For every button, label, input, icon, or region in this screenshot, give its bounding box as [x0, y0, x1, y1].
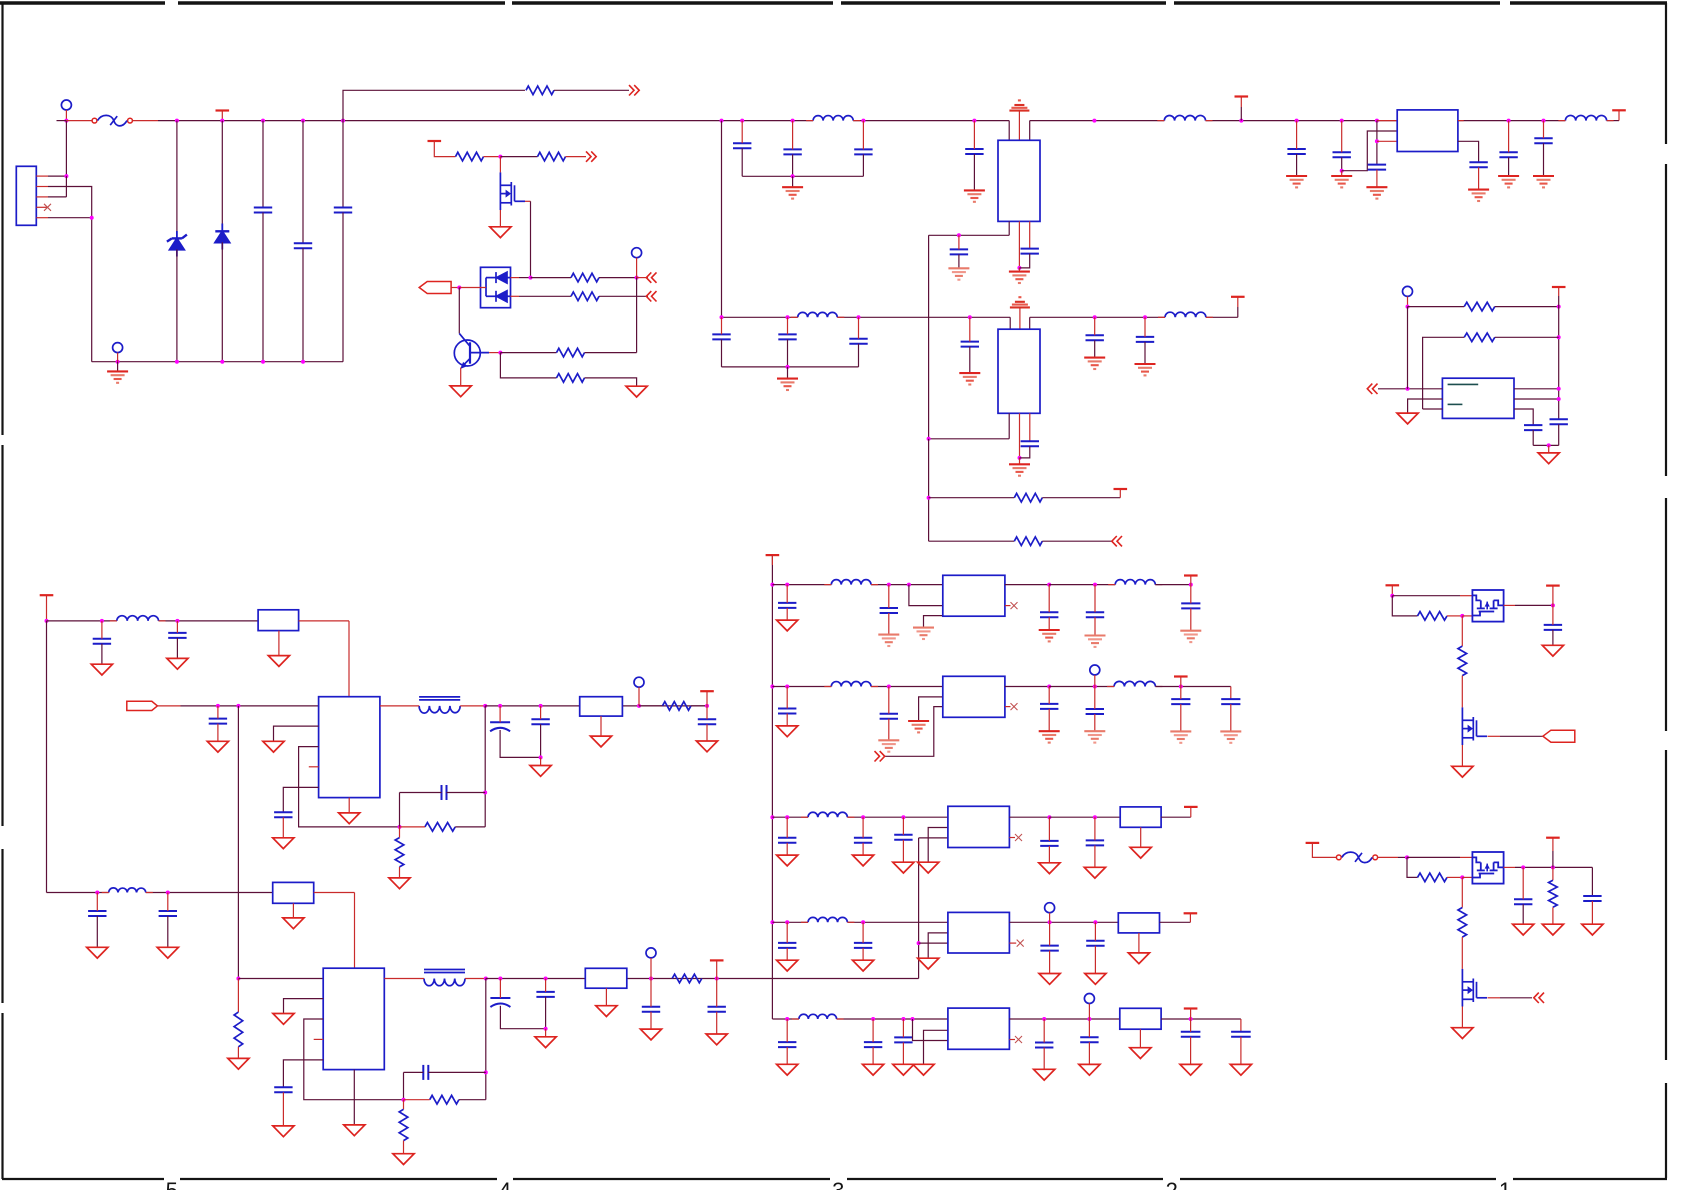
junction R10/T	[1557, 305, 1561, 309]
capacitor C6	[854, 149, 872, 154]
wire C60 down	[872, 1047, 874, 1064]
earth ground C20	[1468, 189, 1489, 191]
connector J1 pin 3	[36, 196, 48, 198]
inductor L4	[1164, 115, 1205, 120]
wire gnd rail to earth	[117, 362, 119, 372]
junction out1 fb col	[483, 704, 487, 708]
junction out1/P5	[637, 704, 641, 708]
wire fb vertical	[636, 278, 638, 353]
earth ground C13	[959, 372, 980, 374]
junction cap rail	[1547, 443, 1551, 447]
ground U5 pin2	[263, 741, 284, 752]
junction out2/P6	[649, 977, 653, 981]
stub U7 nc	[1005, 605, 1011, 607]
wire gnd stub out2	[545, 1029, 547, 1037]
wire FB4 gnd stub	[605, 988, 607, 1006]
capacitor C15	[1086, 335, 1104, 340]
port P5	[634, 677, 644, 687]
wire U3 in	[1377, 120, 1397, 122]
wire fb corner	[399, 793, 401, 827]
wire D3 top to R4	[531, 277, 572, 279]
wire sw1 out	[1504, 604, 1515, 606]
wire U5 pin5 route	[283, 787, 318, 812]
junction bus2/C11	[786, 315, 790, 319]
junction bus/C2	[301, 119, 305, 123]
wire U3 pin3	[1377, 140, 1397, 142]
junction gnd rail/C2	[301, 360, 305, 364]
capacitor C64	[1181, 1032, 1201, 1037]
junction feed row1	[770, 583, 774, 587]
fuse F1	[92, 118, 97, 123]
junction row2/C44	[785, 685, 789, 689]
connector J1 pin 5	[36, 217, 48, 219]
earth ground pi filter	[782, 186, 803, 188]
earth ground C48	[1170, 730, 1191, 732]
wire R20 to Q4	[1461, 676, 1463, 708]
capacitor C23	[1524, 425, 1542, 430]
capacitor C63	[1080, 1037, 1098, 1042]
wire right col	[1558, 307, 1560, 420]
filter block FB3	[273, 882, 314, 903]
wire D3 row1 out	[511, 277, 520, 279]
connector J1 body	[16, 166, 36, 225]
wire fuse to bus	[132, 120, 158, 122]
wire C48 down	[1180, 704, 1182, 731]
svg-text:3: 3	[832, 1178, 844, 1190]
wire U1 gnd pin	[1018, 221, 1020, 268]
connector J1 pin 4	[36, 206, 48, 208]
wire U2 gnd stem	[1019, 458, 1021, 464]
wire row4 T stem	[1189, 913, 1191, 922]
wire flag2 to reg2	[1019, 307, 1021, 329]
junction bus/drop to 2nd stage	[720, 119, 724, 123]
wire C14 to gnd node	[1020, 446, 1030, 458]
junction EN2	[236, 977, 240, 981]
wire C18 gnd stem	[1341, 171, 1343, 176]
junction p3 row4	[917, 941, 921, 945]
bus segment after reg1 tap	[1030, 120, 1165, 122]
wire sw1 gate down	[1461, 616, 1463, 646]
capacitor C31	[698, 719, 716, 724]
wire bus to D2	[221, 121, 223, 227]
junction row2/C45	[887, 685, 891, 689]
wire row2 to end	[1155, 686, 1230, 688]
wire C28 down	[282, 817, 284, 838]
capacitor C54	[1086, 840, 1104, 845]
junction row4/P8	[1048, 920, 1052, 924]
wire U4 pin3	[1423, 408, 1443, 410]
junction bus/C21	[1507, 119, 1511, 123]
LDO row3 rail	[772, 816, 808, 818]
wire R13 gnd	[399, 867, 401, 878]
capacitor C60	[864, 1042, 882, 1047]
power symbol T aux	[428, 140, 442, 142]
capacitor C52	[894, 835, 912, 840]
ground out2	[535, 1037, 556, 1048]
power symbol T supervisor	[1552, 286, 1566, 288]
wire U4 out3	[1514, 409, 1533, 425]
wire Rdn1 stub	[399, 827, 401, 838]
wire F2 out	[1378, 856, 1398, 858]
junction J1 pin5 / gnd column	[90, 216, 94, 220]
wire sw2 out	[1504, 866, 1515, 868]
junction row5 p3	[911, 1017, 915, 1021]
wire row3 T stem	[1190, 807, 1192, 817]
wire C8 gnd	[958, 254, 960, 268]
wire J1 pin5	[48, 217, 92, 219]
capacitor C3	[334, 208, 352, 213]
wire Q6 source	[1461, 1007, 1463, 1028]
inductor L8	[109, 888, 146, 893]
ground FB6	[1128, 953, 1149, 964]
wire Q1 drain	[525, 200, 531, 202]
regulator U1	[998, 140, 1040, 221]
wire T to R2	[434, 141, 455, 157]
wire L9 to out	[465, 978, 486, 980]
wire C16 down	[1144, 342, 1146, 364]
wire row3 end	[1161, 816, 1191, 818]
filter block FB7	[1120, 1008, 1161, 1029]
junction feed row2	[770, 685, 774, 689]
wire U4 out2	[1514, 398, 1559, 400]
wire C52 down	[902, 840, 904, 862]
wire R23 to Q6	[1461, 937, 1463, 969]
inductor L13	[1114, 681, 1155, 686]
junction row1/C42	[1093, 583, 1097, 587]
junction bus2/C15	[1093, 315, 1097, 319]
inductor L12	[831, 682, 871, 687]
wire C2 to gnd rail	[302, 248, 304, 362]
resistor R3	[538, 152, 566, 161]
wire FB5 gnd	[1140, 827, 1142, 847]
inductor L6	[117, 616, 159, 621]
capacitor C40	[880, 608, 898, 613]
wire bus end up	[1618, 110, 1620, 120]
wire feed to dcdc2	[237, 706, 239, 979]
capacitor C14	[1021, 441, 1039, 446]
ground U4 pin2	[1397, 413, 1418, 424]
wire R11 left route	[1423, 337, 1465, 409]
wire U1 left col down	[928, 235, 930, 438]
wire U2 pin3	[1029, 413, 1031, 441]
junction sw1 gate	[1460, 614, 1464, 618]
wire T stem out2	[716, 960, 718, 978]
dcdc1 input rail	[47, 620, 117, 622]
wire C33 down	[167, 916, 169, 947]
resistor R23	[1458, 908, 1467, 938]
wire C30 down	[540, 724, 542, 757]
wire R12 right	[455, 826, 485, 828]
wire drop to bus2	[721, 121, 723, 318]
ground R17	[393, 1154, 414, 1165]
resistor R12	[425, 823, 455, 832]
supervisor U4 label lines	[1448, 384, 1479, 404]
stub U10 nc	[1009, 942, 1016, 944]
junction row1/C41	[1047, 583, 1051, 587]
wire D3 row2 out	[511, 295, 520, 297]
capacitor C38	[708, 1007, 726, 1012]
wire to sw2 node	[1398, 856, 1407, 858]
offpage connector aux >>	[586, 151, 596, 161]
wire row1 to corner	[1155, 584, 1191, 586]
wire to R3	[500, 156, 537, 158]
junction bus segment	[1092, 119, 1096, 123]
LDO U8	[943, 676, 1005, 717]
wire reg1 right top	[1029, 121, 1031, 141]
junction row1 p2	[907, 583, 911, 587]
frame top border	[0, 1, 165, 4]
junction bus/C3	[341, 119, 345, 123]
wire C4 down	[741, 148, 743, 176]
resistor R2	[456, 152, 484, 161]
no-connect U11	[1015, 1036, 1022, 1043]
offpage connector << U4	[1367, 384, 1377, 394]
wire D2 anode to gnd rail	[221, 242, 223, 361]
capacitor C21	[1499, 152, 1517, 157]
no-connect U10	[1017, 940, 1024, 947]
wire C61 down	[902, 1042, 904, 1064]
wire R17 gnd	[403, 1141, 405, 1154]
wire P3 stem	[636, 258, 638, 278]
port P9	[1084, 994, 1094, 1004]
earth ground C8	[948, 267, 969, 269]
inductor L3	[1165, 312, 1206, 317]
wire sw1 gate row	[1392, 596, 1417, 616]
junction sw2 feed	[1405, 855, 1409, 859]
wire LDO2 p2	[919, 697, 943, 721]
feedback cap Cff1	[442, 785, 447, 800]
power symbol T sw1	[1386, 584, 1400, 586]
wire Q1 source stub	[499, 210, 501, 227]
wire C34 down	[282, 1092, 284, 1126]
resistor R21	[1418, 873, 1448, 882]
power symbol T mid	[1235, 95, 1249, 97]
feed column red stub	[771, 555, 773, 565]
ground FB2	[590, 736, 611, 747]
wire U1 out rail	[929, 234, 1010, 236]
wire gnd stub out1	[540, 757, 542, 765]
wire R22 down	[1552, 907, 1554, 924]
wire LDO4 p2	[928, 933, 948, 958]
capacitor C25	[93, 639, 111, 644]
MOSFET Q6	[1462, 969, 1487, 1007]
junction row3/C51	[861, 815, 865, 819]
wire R11 right	[1495, 336, 1559, 338]
wire C10 down	[721, 339, 723, 367]
junction feed row4	[770, 920, 774, 924]
ground C59	[777, 1064, 798, 1075]
ground R7	[626, 386, 647, 397]
wire C58 down	[1094, 946, 1096, 974]
wire C7 down	[973, 154, 975, 190]
wire bus up branch	[343, 90, 525, 120]
junction U2 out/col	[927, 437, 931, 441]
wire U5 fb route	[299, 747, 400, 827]
ground C57	[1039, 974, 1060, 985]
filter block FB5	[1120, 807, 1161, 827]
ground C31	[696, 741, 717, 752]
capacitor C18	[1333, 152, 1351, 157]
wire Cff1 left	[400, 792, 442, 794]
wire C40 down	[888, 613, 890, 635]
wire C23 down	[1532, 430, 1534, 445]
power symbol T sw1 out	[1546, 584, 1560, 586]
wire Q6 drain to offpage	[1488, 997, 1501, 999]
junction pi2 gnd	[786, 365, 790, 369]
earth ground C17	[1286, 175, 1307, 177]
wire R4 to node	[599, 277, 637, 279]
wire rowB to R9	[929, 540, 1015, 542]
ground LDO5 p2	[913, 1064, 934, 1075]
wire T4 stem lower	[1240, 107, 1242, 121]
wire T stem out1	[706, 691, 708, 706]
wire C59 down	[786, 1047, 788, 1064]
wire C62 down	[1043, 1048, 1045, 1070]
junction P4 node	[1406, 305, 1410, 309]
stub U5 pin4	[309, 766, 319, 768]
wire C11 down	[787, 339, 789, 367]
junction bus/C17	[1295, 119, 1299, 123]
junction C29/C30 gnd	[539, 755, 543, 759]
wire C65 down	[1240, 1037, 1242, 1065]
ground Q4	[1452, 766, 1473, 777]
power symbol T LDO feed	[766, 554, 780, 556]
resistor R18	[672, 974, 702, 983]
wire pi gnd rail	[742, 175, 863, 177]
junction row1/C40	[887, 583, 891, 587]
wire FB3 out	[314, 892, 355, 894]
inductor L9 (shielded)	[424, 979, 465, 986]
junction row1 end	[1189, 583, 1193, 587]
capacitor C65	[1231, 1032, 1251, 1037]
power symbol T row3	[1184, 806, 1198, 808]
ground out1	[530, 766, 551, 777]
junction row4/C56	[861, 920, 865, 924]
ground C28	[273, 838, 294, 849]
wire row1 out rail	[1049, 584, 1115, 586]
ground C39	[777, 620, 798, 631]
earth ground U1	[1009, 271, 1030, 273]
wire FB6 gnd	[1138, 933, 1140, 953]
LDO row2 rail	[772, 686, 831, 688]
resistor R20	[1458, 646, 1467, 676]
capacitor C61	[894, 1037, 912, 1042]
junction EN1/C27	[216, 704, 220, 708]
wire P4 stem	[1407, 296, 1409, 306]
wire rowA to R8	[929, 497, 1015, 499]
junction row2 T	[1179, 685, 1183, 689]
wire C54 down	[1094, 845, 1096, 867]
wire LDO2 p3	[885, 707, 943, 757]
junction bus2/C12	[857, 315, 861, 319]
svg-text:1: 1	[1499, 1178, 1511, 1190]
wire R16 right	[459, 1099, 486, 1101]
junction row4/C58	[1093, 920, 1097, 924]
connector J1 pin 2	[36, 186, 48, 188]
wire C64 down	[1190, 1037, 1192, 1065]
capacitor C4	[733, 143, 751, 148]
ground C53	[1039, 863, 1060, 874]
ground R15	[228, 1058, 249, 1069]
ground C66	[1542, 645, 1563, 656]
wire T5 stem upper	[1558, 287, 1560, 296]
ground U6	[344, 1125, 365, 1136]
capacitor C57	[1040, 946, 1058, 951]
wire U2 out rail	[929, 438, 1010, 440]
junction row3/C50	[785, 815, 789, 819]
capacitor C22	[1534, 138, 1552, 143]
capacitor C42	[1086, 612, 1104, 617]
ground C56	[853, 960, 874, 971]
inductor L2	[798, 312, 838, 317]
wire C9 to gnd node	[1019, 254, 1029, 268]
junction out1/C30	[539, 704, 543, 708]
wire Cff2 left	[404, 1071, 424, 1073]
junction fb node1	[398, 825, 402, 829]
frame bottom border	[2, 1178, 164, 1180]
wire Q1 gate stub	[499, 157, 501, 173]
junction sw1 feed	[1390, 594, 1394, 598]
filter block FB6	[1118, 913, 1159, 933]
junction bus/C5	[791, 119, 795, 123]
capacitor C11	[778, 334, 796, 339]
capacitor C68	[1583, 896, 1601, 901]
no-connect J1 pin4	[44, 204, 51, 211]
wire C26 down	[176, 638, 178, 659]
capacitor C47	[1086, 709, 1104, 714]
earth ground C42	[1085, 634, 1106, 636]
filter block FB4	[585, 968, 627, 988]
wire col down to rows	[928, 439, 930, 541]
port P2 chassis	[113, 343, 123, 353]
wire P1 stem	[65, 110, 67, 121]
ground C26	[167, 658, 188, 669]
transistor Q2 NPN	[454, 340, 480, 366]
capacitor C44	[778, 709, 796, 714]
resistor R15	[234, 1012, 243, 1047]
junction bus/C6	[861, 119, 865, 123]
filter block FB1	[258, 610, 299, 631]
wire R10 right	[1495, 306, 1559, 308]
wire Cp2 down	[500, 1006, 545, 1029]
junction bus/zener D1	[175, 119, 179, 123]
wire U5 gnd stub	[348, 798, 350, 813]
capacitor C67	[1514, 899, 1532, 904]
capacitor C10	[712, 334, 730, 339]
wire R16 left stub	[404, 1099, 430, 1101]
wire C47 down	[1094, 714, 1096, 731]
junction bus/diode D2	[220, 119, 224, 123]
ground FB4	[596, 1006, 617, 1017]
wire LDO4 p3	[919, 942, 948, 944]
wire sw1 T stem	[1391, 585, 1393, 595]
junction out1/Cp1	[498, 704, 502, 708]
offpage connector << bottom	[646, 291, 656, 301]
dual diode D3 internals	[486, 272, 511, 302]
junction C35/C36 gnd	[544, 1027, 548, 1031]
junction row2/P7	[1093, 685, 1097, 689]
junction bus2/C16	[1143, 315, 1147, 319]
wire C25 down	[101, 644, 103, 665]
output rail dcdc1	[485, 705, 580, 707]
wire reg2 right top	[1029, 317, 1031, 329]
port P4	[1403, 286, 1413, 296]
junction pin1/pin3 tie	[64, 174, 68, 178]
ground C58	[1085, 974, 1106, 985]
wire C27 down	[217, 724, 219, 742]
junction sw2 gate	[1460, 875, 1464, 879]
wire into U5 vcc	[348, 621, 350, 697]
